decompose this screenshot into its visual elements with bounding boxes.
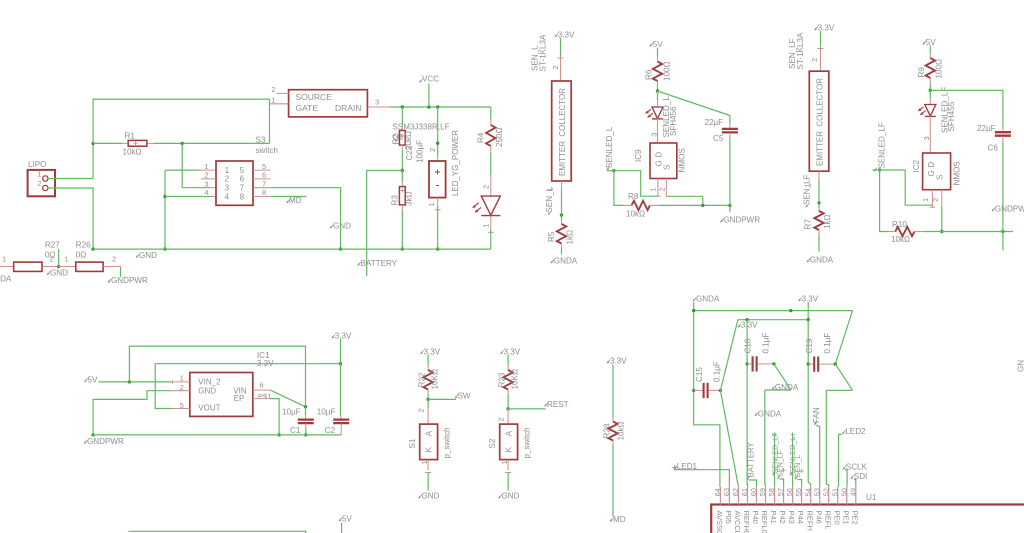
capacitor C6 wire: [930, 90, 1011, 250]
label GNDPWR (C6): [992, 205, 1024, 214]
svg-text:GNDPWR: GNDPWR: [111, 276, 148, 285]
phototransistor SEN_L wire top: [551, 38, 564, 81]
wire net REST: [508, 408, 545, 410]
S3 right pin numbers: [262, 162, 266, 197]
origin cross U1: [672, 465, 678, 471]
wire SEN_L to pin55: [798, 469, 804, 487]
S3 pin8 wire: [253, 196, 306, 198]
svg-text:0.1µF: 0.1µF: [761, 333, 770, 354]
svg-text:NMOS: NMOS: [677, 148, 686, 173]
svg-text:7: 7: [240, 184, 245, 193]
junction 3.3V/C19: [807, 318, 810, 321]
svg-text:DRAIN: DRAIN: [335, 103, 361, 113]
svg-text:C6: C6: [988, 144, 999, 153]
svg-text:SENLED_L: SENLED_L: [605, 126, 614, 168]
label R22 name/value: [417, 369, 439, 389]
svg-text:22µF: 22µF: [977, 124, 996, 133]
label net BATTERY (U1): [746, 441, 755, 479]
label net FAN: [812, 407, 821, 425]
label MD (R28): [610, 515, 626, 524]
svg-text:61: 61: [740, 488, 749, 496]
svg-text:3: 3: [225, 184, 230, 193]
svg-text:switch: switch: [256, 146, 279, 155]
svg-text:1: 1: [271, 96, 275, 105]
label GND (S1): [419, 492, 440, 501]
label GNDA (left edge): [0, 275, 12, 284]
svg-text:1: 1: [482, 224, 491, 228]
junction C23 pin2: [436, 142, 439, 145]
svg-text:1: 1: [65, 254, 69, 263]
svg-text:GND: GND: [139, 251, 157, 260]
SEN_LF pin1 wire: [803, 171, 819, 203]
svg-text:R1: R1: [125, 132, 136, 141]
wire net BATTERY: [367, 171, 403, 277]
svg-text:2: 2: [225, 175, 230, 184]
label net SEN_L: [545, 186, 554, 214]
S3 pin5 stub: [253, 169, 270, 171]
junction 5V branch: [128, 380, 131, 383]
wire SENLED_L to pin56: [790, 432, 794, 487]
wire C19 left vertical to pin54: [808, 320, 810, 487]
svg-text:D: D: [654, 152, 663, 158]
wire LIPO pin2 down to GND rail: [48, 188, 93, 249]
label Q1 value SSM3J338R,LF: [392, 123, 449, 142]
U1 pin numbers: [713, 488, 857, 496]
IC2 pin1 gate wire: [921, 190, 935, 208]
svg-text:7: 7: [262, 179, 266, 188]
svg-text:10KΩ: 10KΩ: [431, 369, 440, 389]
svg-text:C23: C23: [405, 145, 414, 160]
connector LIPO: [28, 160, 55, 196]
junction GNDPWR rail left: [91, 433, 94, 436]
label C6 name/value: [977, 124, 998, 153]
svg-text:P40: P40: [751, 511, 760, 524]
junction pin7/GND rail: [339, 247, 342, 250]
junction R1/S3 branch: [181, 142, 184, 145]
svg-text:R27: R27: [45, 241, 60, 250]
LED SENLED_L (SFH456): [646, 91, 663, 119]
resistor R28: [608, 365, 617, 517]
label net SENLED_L (IC9): [605, 126, 614, 170]
svg-text:NMOS: NMOS: [952, 161, 961, 186]
label GNDA (R7): [807, 256, 834, 265]
wire S3 pin1/pin4 vertical: [164, 170, 166, 249]
svg-text:REFL: REFL: [823, 511, 832, 530]
IC1 inside labels: [198, 377, 247, 412]
svg-text:3.3V: 3.3V: [558, 30, 575, 39]
svg-text:GNDA: GNDA: [696, 295, 720, 304]
svg-text:3: 3: [922, 136, 931, 140]
svg-text:1: 1: [921, 198, 930, 202]
resistor R10 wire left: [880, 170, 889, 232]
label GND (S3): [330, 221, 351, 230]
label SW: [455, 392, 471, 401]
wire 5V to VIN_2: [99, 373, 190, 383]
svg-text:P$1: P$1: [258, 392, 271, 401]
capacitor C23 wire top: [437, 107, 439, 156]
S3 left pin numbers: [204, 162, 208, 197]
svg-text:GN: GN: [1017, 360, 1024, 372]
svg-text:2: 2: [931, 198, 940, 202]
label net SENLED_LF (IC2): [874, 122, 887, 171]
svg-text:MD: MD: [289, 196, 302, 205]
svg-text:1: 1: [420, 460, 429, 464]
svg-text:1: 1: [2, 254, 6, 263]
U1 pin names: [715, 511, 859, 533]
IC2 pin2 source wire: [931, 190, 942, 232]
svg-text:53: 53: [812, 488, 821, 496]
svg-text:EP: EP: [234, 394, 245, 403]
svg-text:3: 3: [375, 98, 379, 107]
junction C1/GNDPWR rail: [304, 433, 307, 436]
junction R9/LED/C6: [929, 89, 932, 92]
MOSFET IC9 NMOS box: [634, 143, 687, 179]
phototransistor SEN_LF box: [809, 71, 829, 171]
junction S3 pin4 branch: [163, 195, 166, 198]
svg-text:3.3V: 3.3V: [741, 321, 758, 330]
label SEN_L name/value: [531, 34, 548, 71]
svg-text:S1: S1: [408, 438, 417, 448]
Q1 pin1 GATE wire: [270, 96, 289, 105]
S2 pin2 wire: [497, 408, 509, 424]
svg-text:R28: R28: [602, 423, 611, 438]
label C19 name/value: [805, 333, 832, 354]
svg-text:R10: R10: [892, 220, 907, 229]
svg-text:5V: 5V: [342, 515, 353, 524]
svg-text:LED_YG_POWER: LED_YG_POWER: [450, 130, 460, 196]
svg-text:VCC: VCC: [422, 75, 439, 84]
label net LED2: [842, 427, 866, 436]
label C18 name/value: [743, 333, 770, 354]
supply 5V (IC1): [85, 376, 99, 385]
svg-text:5V: 5V: [653, 40, 664, 49]
svg-text:0.1µF: 0.1µF: [712, 361, 721, 382]
svg-text:2: 2: [50, 254, 54, 263]
S1 pin1 wire: [420, 460, 431, 491]
svg-text:C18: C18: [743, 338, 752, 353]
capacitor C5 wire: [658, 91, 738, 212]
svg-text:3.3V: 3.3V: [610, 357, 627, 366]
supply 3.3V (IC1): [332, 332, 352, 364]
svg-text:S: S: [935, 175, 944, 180]
svg-text:6: 6: [240, 175, 245, 184]
svg-text:3: 3: [204, 179, 208, 188]
label net LED1: [674, 462, 698, 471]
resistor R9: [926, 46, 935, 91]
svg-text:2: 2: [482, 185, 491, 189]
junction GNDA left: [692, 309, 695, 312]
label C23 pin2: [428, 148, 437, 152]
label GND (rail): [136, 251, 157, 260]
svg-text:2: 2: [112, 254, 116, 263]
svg-text:10kΩ: 10kΩ: [626, 210, 645, 219]
wire 5V loop to pin6: [129, 346, 305, 407]
wire net SW: [428, 398, 456, 400]
svg-text:5V: 5V: [88, 376, 99, 385]
svg-text:ST-1KL3A: ST-1KL3A: [796, 32, 805, 69]
wire SEN_LF to pin57: [780, 468, 786, 487]
svg-text:EMITTER COLLECTOR: EMITTER COLLECTOR: [558, 88, 567, 176]
label GNDA (top): [693, 295, 720, 304]
svg-text:GNDPWR: GNDPWR: [87, 437, 124, 446]
label C5 name/value: [705, 118, 724, 143]
junction C6/R10 line: [1001, 230, 1004, 233]
label R5 name/value: [547, 230, 574, 245]
resistor R1: [122, 132, 153, 157]
resistor R10: [889, 220, 923, 244]
svg-text:0.1µF: 0.1µF: [823, 333, 832, 354]
label C23 name/value: [405, 140, 425, 163]
junction LIPO/R1: [91, 142, 94, 145]
svg-text:GND: GND: [333, 221, 351, 230]
label GND (S2): [499, 492, 520, 501]
label SENLED_LF name/value: [940, 87, 956, 133]
IC1 pin5 VOUT wire: [155, 364, 340, 410]
svg-text:58: 58: [767, 488, 776, 496]
svg-text:2: 2: [551, 65, 560, 69]
svg-text:SFH456: SFH456: [669, 106, 678, 136]
junction GND rail left: [91, 247, 94, 250]
wire to S3 pin1: [165, 169, 216, 171]
svg-text:0Ω: 0Ω: [76, 250, 87, 259]
svg-text:2: 2: [657, 187, 666, 191]
svg-text:GND: GND: [198, 387, 216, 396]
wire SCLK to pin50: [845, 470, 847, 487]
svg-text:5V: 5V: [926, 38, 937, 47]
svg-text:1: 1: [225, 166, 230, 175]
svg-text:SEN_L: SEN_L: [545, 186, 554, 212]
svg-text:IC9: IC9: [634, 149, 643, 162]
transistor Q1 SOURCE/GATE/DRAIN box: [289, 90, 368, 117]
junction S3 vertical/GND rail: [163, 247, 166, 250]
svg-text:SCLK: SCLK: [846, 463, 868, 472]
junction DRAIN/VCC: [427, 105, 430, 108]
capacitor C19: [807, 357, 838, 372]
svg-text:P46: P46: [814, 511, 823, 524]
resistor R22: [423, 355, 432, 399]
junction DRAIN/R2: [401, 105, 404, 108]
svg-text:60: 60: [749, 488, 758, 496]
resistor R8 wire left: [614, 171, 624, 206]
label net SDI: [851, 472, 868, 481]
svg-text:SOURCE: SOURCE: [296, 92, 333, 102]
svg-text:A: A: [504, 430, 513, 436]
svg-text:GNDA: GNDA: [0, 275, 12, 284]
wire LED2 to pin51: [839, 434, 842, 486]
label MD: [287, 196, 302, 205]
svg-text:5: 5: [262, 162, 266, 171]
wire 3.3V diag C15 to pin62: [720, 390, 738, 486]
svg-text:PE1: PE1: [841, 511, 850, 525]
svg-text:49: 49: [848, 488, 857, 496]
resistor R8: [624, 192, 659, 219]
resistor R5: [557, 215, 566, 254]
label R28 name/value: [602, 421, 625, 440]
svg-text:A: A: [424, 430, 433, 436]
junction DRAIN/C23: [436, 105, 439, 108]
svg-text:S3: S3: [256, 136, 266, 145]
wire R10 to GNDPWR: [923, 231, 1013, 233]
svg-text:PE0: PE0: [832, 511, 841, 525]
svg-text:1: 1: [180, 373, 184, 382]
svg-text:R26: R26: [76, 241, 91, 250]
junction C23/GND rail: [436, 247, 439, 250]
svg-text:64: 64: [713, 488, 722, 496]
label GNDA (R5): [551, 257, 578, 266]
svg-text:100Ω: 100Ω: [662, 61, 671, 81]
svg-text:10kΩ: 10kΩ: [617, 421, 626, 440]
switch S2: [488, 424, 531, 460]
svg-text:p_switch: p_switch: [523, 427, 532, 458]
svg-text:BATTERY: BATTERY: [746, 441, 755, 477]
svg-text:57: 57: [776, 488, 785, 496]
svg-text:10kΩ: 10kΩ: [891, 235, 910, 244]
junction R3/GND rail: [401, 247, 404, 250]
svg-text:56: 56: [785, 488, 794, 496]
resistor R6: [653, 48, 662, 91]
svg-text:2: 2: [37, 179, 41, 188]
svg-text:2: 2: [417, 408, 426, 412]
svg-text:2: 2: [428, 148, 437, 152]
svg-text:3: 3: [649, 133, 658, 137]
wire LED1 to pin63: [674, 470, 729, 487]
svg-text:3kΩ: 3kΩ: [405, 191, 414, 206]
LED to IC2 pin3 wire: [922, 116, 931, 153]
S2 pin1 wire: [500, 460, 511, 491]
label net SENLED_LF (U1): [771, 432, 780, 476]
svg-text:PE2: PE2: [850, 511, 859, 525]
svg-text:SW: SW: [458, 392, 471, 401]
svg-text:GNDA: GNDA: [554, 257, 578, 266]
label net SENLED_L (U1): [788, 437, 797, 476]
capacitor C18: [745, 356, 775, 371]
svg-text:2: 2: [271, 85, 275, 94]
label SENLED_L name/value: [662, 96, 678, 138]
junction source/GNDPWR: [701, 204, 704, 207]
svg-text:R5: R5: [547, 231, 556, 242]
svg-text:C5: C5: [713, 134, 724, 143]
label GND (R27): [47, 268, 68, 277]
svg-text:10KΩ: 10KΩ: [511, 369, 520, 389]
IC9 pin2 source wire: [657, 179, 703, 206]
wire GNDPWR rail (IC1): [93, 434, 341, 436]
svg-text:10µF: 10µF: [282, 407, 301, 416]
MOSFET IC2 NMOS box: [912, 153, 961, 190]
svg-text:K: K: [504, 446, 513, 452]
svg-text:MD: MD: [613, 515, 626, 524]
resistor R2: [399, 107, 405, 171]
label R9 name/value: [917, 59, 944, 79]
svg-text:S: S: [663, 165, 672, 170]
svg-text:P41: P41: [769, 511, 778, 524]
supply 5V (R9): [923, 38, 937, 47]
label R3 name/value: [390, 191, 413, 206]
wire BATTERY to pin60: [749, 480, 757, 487]
svg-text:1: 1: [204, 162, 208, 171]
svg-text:REFH: REFH: [805, 511, 814, 531]
svg-text:3.3V: 3.3V: [424, 348, 441, 357]
svg-text:GND: GND: [50, 268, 68, 277]
phototransistor SEN_L box: [552, 81, 572, 181]
label net SEN_L (U1): [793, 455, 802, 480]
label C15 name/value: [695, 361, 722, 382]
svg-text:BATTERY: BATTERY: [361, 259, 398, 268]
label LED_YG_POWER: [450, 130, 460, 196]
wire SDI to pin49: [854, 480, 856, 487]
svg-text:R3: R3: [390, 195, 399, 206]
wire R8 to GNDPWR: [658, 204, 730, 206]
svg-text:SENLED_LF: SENLED_LF: [878, 122, 887, 168]
junction SEN_LF net: [817, 201, 820, 204]
svg-text:C1: C1: [290, 426, 301, 435]
svg-text:P43: P43: [787, 511, 796, 524]
svg-text:8: 8: [262, 188, 266, 197]
svg-text:R8: R8: [628, 192, 639, 201]
svg-text:54: 54: [803, 488, 812, 496]
S3 pin6 stub: [253, 178, 270, 180]
C23 pin1 wire: [427, 198, 441, 250]
label clipped (right edge): [1017, 360, 1024, 372]
resistor R4: [486, 107, 495, 175]
label GNDPWR (R26): [108, 276, 148, 285]
wire LIPO pin1 to R1 net: [48, 99, 270, 178]
svg-text:R9: R9: [917, 67, 926, 78]
wire SENLED_LF to pin58: [772, 432, 776, 487]
resistor R27: [0, 241, 60, 272]
svg-text:U1: U1: [866, 493, 877, 502]
capacitor C23 (polarized box): [429, 156, 446, 198]
svg-text:D: D: [927, 162, 936, 168]
label GNDA (pin59): [755, 409, 782, 418]
svg-text:1kΩ: 1kΩ: [823, 214, 832, 229]
wire R1 net horizontal: [93, 142, 269, 144]
svg-text:8: 8: [240, 192, 245, 201]
label R4 name/value: [477, 127, 504, 147]
junction R6/LED/C5: [656, 89, 659, 92]
switch S1: [408, 424, 451, 460]
phototransistor SEN_LF wire top: [810, 31, 824, 71]
svg-text:3.3V: 3.3V: [504, 348, 521, 357]
IC1 pin P$1 wire: [253, 392, 279, 435]
supply 3.3V (R28): [607, 357, 627, 366]
svg-text:250Ω: 250Ω: [495, 127, 504, 147]
svg-text:GATE: GATE: [296, 103, 319, 113]
svg-text:100Ω: 100Ω: [935, 59, 944, 79]
Q1 pin3 DRAIN wire: [367, 98, 490, 108]
LED power indicator: [473, 175, 501, 216]
wire SENLED_LF to gate: [873, 170, 933, 205]
svg-text:6: 6: [262, 171, 266, 180]
SEN_L pin1 wire: [546, 181, 562, 215]
resistor R7: [814, 203, 823, 252]
label R6 name/value: [644, 61, 671, 81]
svg-text:C2: C2: [325, 426, 336, 435]
switch S3: [201, 136, 278, 206]
supply 5V (bottom): [339, 515, 353, 533]
junction SENLED_LF: [878, 168, 881, 171]
svg-text:2: 2: [497, 417, 506, 421]
wire GNDA C18-right to pin59: [765, 364, 791, 487]
svg-text:R2: R2: [391, 134, 400, 145]
label 3.3V (mid): [738, 321, 758, 330]
svg-text:REFL0: REFL0: [760, 511, 769, 533]
svg-text:3.3V: 3.3V: [802, 295, 819, 304]
svg-text:R7: R7: [803, 219, 812, 230]
IC1 pin6 wire: [253, 381, 306, 407]
wire bottom-left (clipped block): [129, 531, 306, 533]
label REST: [545, 400, 569, 409]
S1 pin2 wire: [417, 399, 429, 424]
